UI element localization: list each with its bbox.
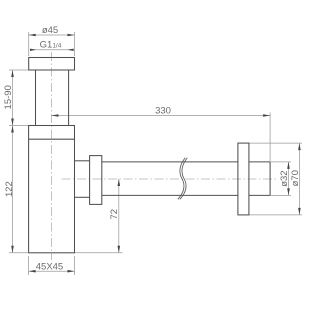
svg-text:ø45: ø45 bbox=[42, 25, 58, 36]
svg-text:72: 72 bbox=[109, 209, 120, 220]
svg-text:ø70: ø70 bbox=[290, 170, 301, 186]
svg-text:15-90: 15-90 bbox=[3, 85, 14, 109]
svg-text:45X45: 45X45 bbox=[36, 261, 63, 272]
svg-text:122: 122 bbox=[4, 181, 15, 197]
svg-text:ø32: ø32 bbox=[279, 170, 290, 186]
svg-text:330: 330 bbox=[155, 105, 171, 116]
